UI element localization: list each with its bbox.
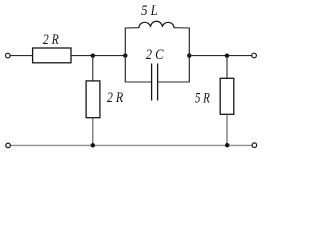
node D junction (tap of load 5R)	[225, 54, 229, 58]
wire: bottom branch left lead to capacitor	[125, 81, 151, 83]
svg-text:2 C: 2 C	[146, 47, 164, 63]
svg-text:2 R: 2 R	[107, 90, 124, 106]
capacitor C1 2C left plate	[151, 64, 153, 101]
terminal: output bottom	[252, 143, 257, 148]
wire: shunt resistor 2R to bottom rail	[92, 118, 94, 146]
resistor R3 5R (load, vertical)	[220, 78, 234, 114]
svg-text:2 R: 2 R	[43, 32, 59, 48]
wire: resistor 5R to bottom rail	[226, 114, 228, 145]
inductor L1 5L (three humps)	[139, 21, 174, 28]
wire: node C to output top terminal (through node D)	[189, 55, 251, 57]
capacitor C1 2C right plate	[157, 64, 159, 101]
wire: bottom branch right lead from capacitor	[158, 81, 190, 83]
wire: top branch left lead to inductor	[125, 27, 139, 29]
terminal: input bottom	[6, 143, 11, 148]
svg-text:5 R: 5 R	[195, 90, 210, 106]
wire: bottom rail	[11, 144, 252, 146]
wire: left side of LC tank (vertical)	[124, 28, 126, 83]
svg-text:5 L: 5 L	[141, 3, 158, 19]
node B junction (left node of LC tank)	[123, 53, 127, 57]
wire: right side of LC tank (vertical)	[188, 28, 190, 83]
resistor R2 2R (shunt, vertical)	[86, 81, 100, 118]
node A junction (tap of shunt 2R)	[91, 54, 95, 58]
terminal: output top	[252, 53, 257, 58]
wire: resistor 2R to node B (through node A)	[71, 55, 125, 57]
wire: node D down to resistor 5R	[226, 56, 228, 79]
node C junction (right node of LC tank)	[187, 53, 191, 57]
wire: node A down to shunt resistor 2R	[92, 56, 94, 81]
wire: top branch right lead from inductor	[174, 27, 190, 29]
junction: bottom rail at load 5R branch	[225, 143, 229, 147]
junction: bottom rail at shunt 2R branch	[91, 143, 95, 147]
wire: input top terminal to resistor 2R series	[10, 55, 32, 57]
terminal: input top	[6, 53, 11, 58]
resistor R1 2R (series, horizontal)	[33, 48, 71, 63]
